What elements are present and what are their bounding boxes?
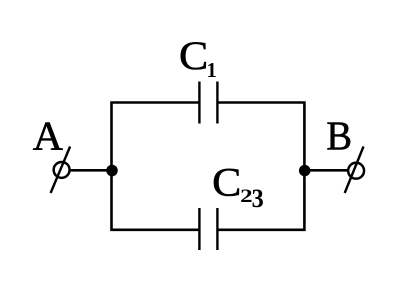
terminal B (open circle) <box>348 163 364 179</box>
capacitor C1 <box>199 82 217 124</box>
svg-text:A: A <box>33 113 64 159</box>
capacitor C23 <box>199 208 217 250</box>
svg-text:3: 3 <box>252 184 264 213</box>
terminal B slash <box>345 147 364 194</box>
node junction dot left <box>106 165 118 177</box>
label C1 <box>179 33 217 82</box>
wire: right half of loop (top-right, right side, bottom-right) <box>218 103 304 230</box>
svg-text:B: B <box>326 113 352 159</box>
node junction dot right <box>299 165 311 177</box>
wire: terminal A to left node <box>71 169 113 172</box>
wire: right node to terminal B <box>305 169 348 172</box>
label C23 <box>212 160 264 213</box>
wire: left half of loop (top-left, left side, bottom-left) <box>112 103 199 230</box>
svg-text:1: 1 <box>207 60 217 82</box>
terminal A slash <box>51 147 71 194</box>
terminal A (open circle) <box>54 162 70 178</box>
svg-text:C: C <box>212 160 241 205</box>
svg-text:C: C <box>179 33 208 78</box>
